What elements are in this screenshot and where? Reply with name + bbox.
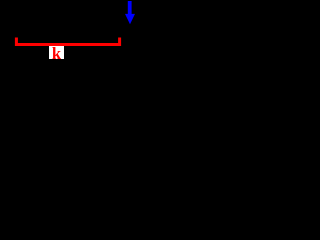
background (0, 0, 200, 74)
svg-text:k: k (52, 44, 62, 63)
arrow (blue down arrow) (125, 1, 135, 24)
label box (white background behind k) (49, 46, 64, 59)
bracket (red upward-opening square bracket) (16, 38, 119, 45)
